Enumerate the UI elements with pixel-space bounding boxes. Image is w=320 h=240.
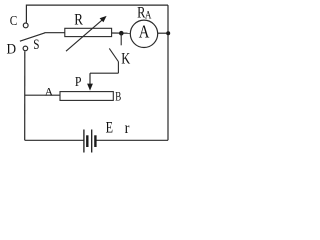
svg-text:C: C [10,14,18,29]
svg-text:E: E [106,119,113,136]
switch S blade [20,33,45,41]
potentiometer box AB [60,92,113,101]
svg-text:B: B [115,88,121,103]
svg-text:S: S [33,37,39,53]
ammeter A [130,20,157,47]
svg-text:K: K [121,50,131,67]
svg-text:A: A [45,84,54,98]
svg-text:D: D [7,42,17,58]
svg-text:r: r [125,120,130,137]
wire right [167,5,169,140]
wire pot branch [25,94,60,96]
wire top [26,5,168,22]
resistor R arrow [66,16,107,51]
wire left [24,51,26,140]
node junction on right wire [166,31,170,35]
wire S to resistor [45,32,65,34]
wire bottom left [25,139,84,141]
svg-text:R: R [74,11,83,28]
svg-text:P: P [75,75,82,90]
wire resistor to node [112,32,131,34]
node junction left of ammeter [119,31,124,36]
potentiometer wiper arrow P [87,73,93,90]
switch K [90,33,121,73]
battery E r [84,130,96,153]
svg-text:A: A [139,22,150,42]
resistor R box [65,28,112,36]
terminal D [23,46,28,51]
wire bottom right [96,139,168,141]
terminal C [23,23,28,28]
wire ammeter to right [157,32,168,34]
svg-text:A: A [145,9,152,21]
